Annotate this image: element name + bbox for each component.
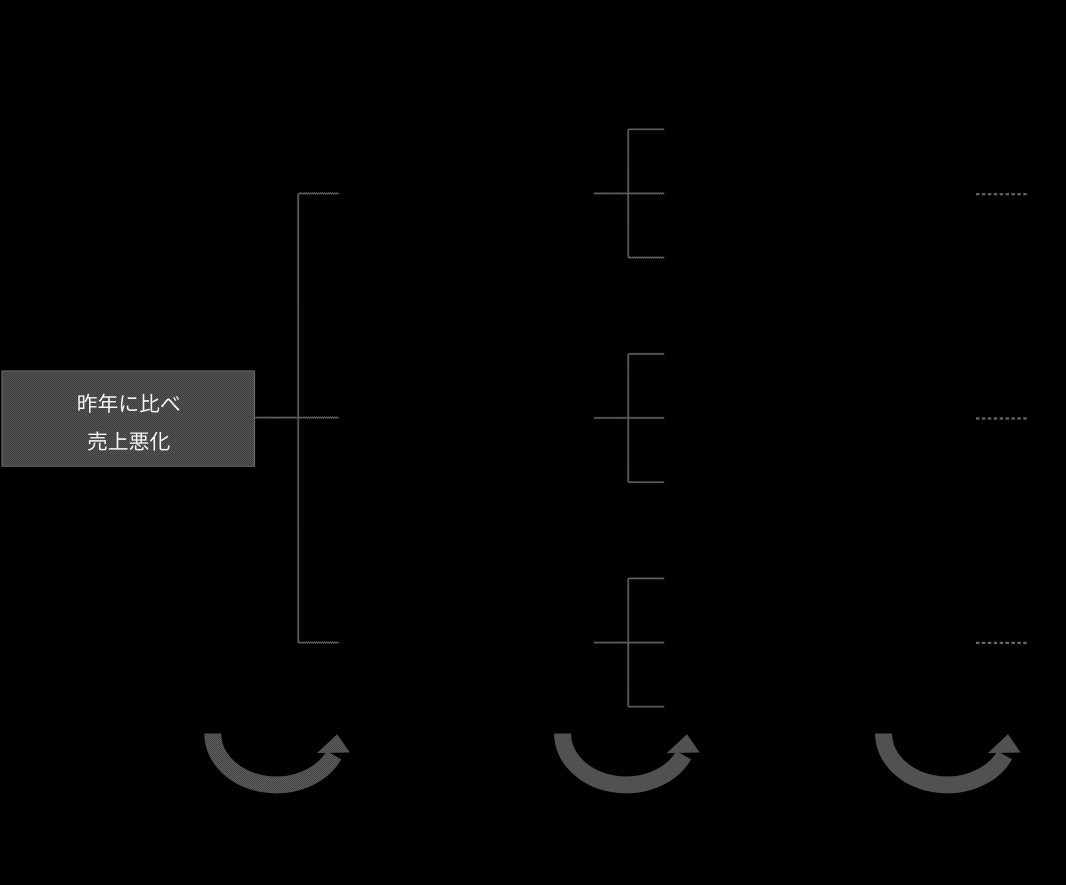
cyclic curved arrow 3 [884,734,1021,785]
wire from root box to level-1 bracket [255,417,298,418]
wire into level-2 bracket 3 [594,642,628,643]
level-2 bracket 1 middle stub [628,193,664,194]
level-2 bracket 3 spine [628,578,629,706]
level-2 bracket 2 middle stub [628,417,664,418]
cyclic curved arrow 1 [213,734,350,785]
level-2 bracket 1 bottom stub [628,257,664,258]
level-2 bracket 3 bottom stub [628,706,664,707]
level-1 bracket middle stub [298,417,339,418]
level-2 bracket 3 top stub [628,578,664,579]
level-2 bracket 1 spine [628,129,629,257]
cyclic curved arrow 2 [563,734,700,785]
level-1 bracket top stub [298,193,339,194]
dashed continuation line 3 [976,642,1027,644]
level-2 bracket 2 bottom stub [628,482,664,483]
level-2 bracket 2 spine [628,354,629,482]
root box text line 1: 昨年に比べ [78,394,179,413]
wire into level-2 bracket 2 [594,417,628,418]
level-2 bracket 3 middle stub [628,642,664,643]
level-2 bracket 2 top stub [628,353,664,354]
dashed continuation line 2 [976,417,1027,419]
level-2 bracket 1 top stub [628,129,664,130]
level-1 bracket bottom stub [298,642,339,643]
wire into level-2 bracket 1 [594,193,628,194]
root box text line 2: 売上悪化 [88,432,170,451]
level-1 bracket spine [298,193,299,642]
dashed continuation line 1 [976,193,1027,195]
root cause box 昨年に比べ売上悪化 [2,371,255,466]
